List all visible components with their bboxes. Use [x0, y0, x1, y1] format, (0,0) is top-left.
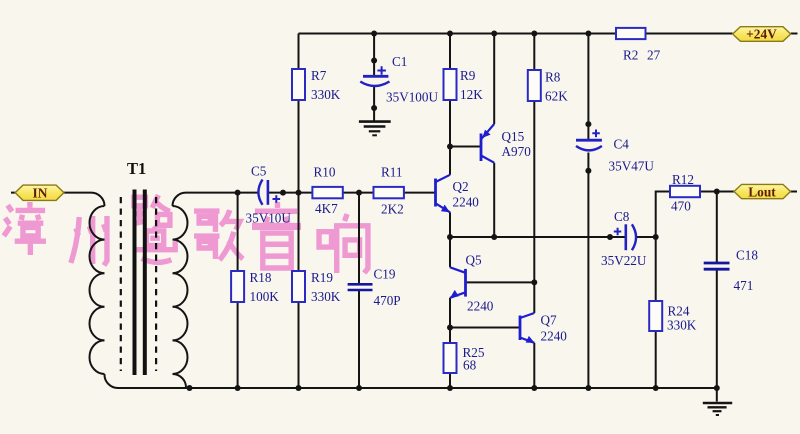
svg-text:Lout: Lout	[748, 185, 776, 200]
svg-text:2240: 2240	[453, 195, 480, 210]
svg-text:Q15: Q15	[502, 129, 525, 144]
svg-text:R18: R18	[250, 270, 272, 285]
svg-text:T1: T1	[127, 159, 146, 178]
svg-text:12K: 12K	[460, 87, 483, 102]
svg-text:R12: R12	[672, 172, 694, 187]
svg-text:R24: R24	[668, 304, 690, 319]
svg-text:C4: C4	[614, 137, 630, 152]
svg-text:R11: R11	[381, 165, 403, 180]
svg-text:A970: A970	[502, 144, 532, 159]
svg-text:100K: 100K	[250, 289, 280, 304]
svg-text:330K: 330K	[667, 318, 697, 333]
svg-text:Q5: Q5	[466, 253, 483, 268]
svg-text:C19: C19	[374, 267, 396, 282]
svg-text:2K2: 2K2	[381, 202, 404, 217]
svg-text:62K: 62K	[545, 89, 568, 104]
svg-text:R19: R19	[311, 270, 333, 285]
svg-text:2240: 2240	[467, 299, 494, 314]
svg-text:68: 68	[463, 358, 477, 373]
svg-text:R7: R7	[311, 68, 327, 83]
svg-text:35V100U: 35V100U	[386, 90, 438, 105]
svg-text:C8: C8	[614, 209, 630, 224]
svg-text:R9: R9	[460, 68, 476, 83]
svg-text:35V22U: 35V22U	[601, 253, 647, 268]
svg-text:35V47U: 35V47U	[609, 159, 655, 174]
svg-text:R8: R8	[545, 70, 561, 85]
svg-text:Q2: Q2	[453, 179, 469, 194]
svg-text:R10: R10	[314, 165, 336, 180]
svg-text:Q7: Q7	[541, 313, 558, 328]
svg-text:C18: C18	[736, 248, 758, 263]
svg-text:35V10U: 35V10U	[246, 211, 292, 226]
svg-text:470: 470	[671, 199, 691, 214]
svg-text:470P: 470P	[374, 293, 401, 308]
svg-text:2240: 2240	[541, 329, 568, 344]
svg-text:R2: R2	[623, 48, 638, 63]
svg-text:471: 471	[734, 278, 754, 293]
svg-text:330K: 330K	[311, 289, 341, 304]
svg-text:330K: 330K	[311, 87, 341, 102]
svg-text:27: 27	[647, 48, 661, 63]
svg-text:4K7: 4K7	[315, 201, 338, 216]
svg-text:+24V: +24V	[746, 27, 777, 42]
svg-text:C1: C1	[392, 54, 407, 69]
svg-text:IN: IN	[33, 186, 48, 201]
svg-text:C5: C5	[251, 164, 267, 179]
